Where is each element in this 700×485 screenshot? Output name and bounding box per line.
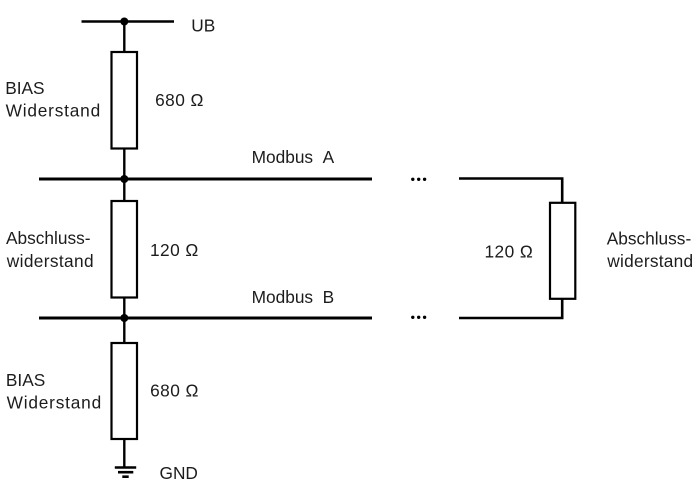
svg-text:680 Ω: 680 Ω: [155, 90, 204, 110]
svg-text:680 Ω: 680 Ω: [150, 381, 199, 401]
node UB junction: [120, 18, 128, 26]
resistor R3 680 ohm BIAS bottom: [112, 343, 138, 439]
resistor R1 680 ohm BIAS top: [112, 52, 138, 149]
svg-text:UB: UB: [191, 15, 215, 35]
svg-text:widerstand: widerstand: [606, 251, 693, 271]
wire Modbus A bus line: [39, 178, 372, 181]
resistor R2 120 ohm termination: [112, 201, 138, 298]
svg-text:120 Ω: 120 Ω: [485, 242, 534, 262]
node bus continuation dots Modbus B: [411, 316, 426, 319]
wire Modbus B bus line: [39, 317, 372, 320]
svg-text:GND: GND: [160, 463, 198, 483]
ground: [115, 468, 136, 477]
svg-text:BIAS: BIAS: [6, 370, 45, 390]
wire R3 bottom to ground: [123, 439, 125, 468]
svg-text:Widerstand: Widerstand: [7, 393, 102, 413]
svg-text:Abschluss-: Abschluss-: [6, 228, 91, 248]
node Modbus A junction: [120, 175, 128, 183]
svg-text:Widerstand: Widerstand: [6, 101, 101, 121]
wire Modbus A right segment to R4: [459, 179, 562, 204]
svg-text:Modbus A: Modbus A: [252, 147, 335, 167]
svg-text:Modbus B: Modbus B: [252, 287, 335, 307]
wire R4 bottom to Modbus B right segment: [459, 298, 562, 318]
wire UB supply rail: [82, 20, 175, 23]
node Modbus B junction: [120, 314, 128, 322]
wire R2 bottom to Modbus B: [123, 297, 125, 319]
svg-text:Abschluss-: Abschluss-: [607, 228, 692, 248]
svg-text:widerstand: widerstand: [6, 251, 94, 271]
resistor R4 120 ohm termination right: [550, 203, 575, 299]
wire Modbus A to R2 top: [123, 179, 125, 202]
wire R1 bottom to Modbus A: [123, 148, 125, 180]
svg-text:BIAS: BIAS: [5, 78, 44, 98]
node bus continuation dots Modbus A: [411, 178, 426, 181]
svg-text:120 Ω: 120 Ω: [150, 240, 199, 260]
wire UB to R1 top: [123, 22, 125, 54]
wire Modbus B to R3 top: [123, 318, 125, 344]
